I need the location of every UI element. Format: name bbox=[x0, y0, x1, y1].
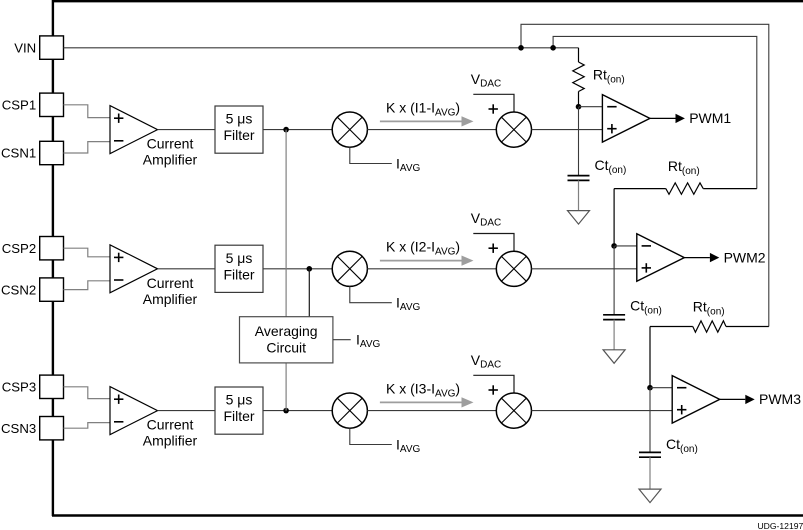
wire row2 node to averaging circuit bbox=[308, 269, 310, 317]
capacitor Ct(on) 1 bbox=[568, 176, 590, 181]
wire ramp node to comparator 3 - input bbox=[650, 387, 672, 389]
svg-text:CSP3: CSP3 bbox=[2, 380, 36, 395]
svg-text:VIN: VIN bbox=[14, 40, 36, 55]
svg-text:5 μs: 5 μs bbox=[226, 392, 253, 408]
wire CSN3 to amplifier - input bbox=[64, 423, 111, 429]
wire CSN2 to amplifier - input bbox=[64, 281, 111, 290]
wire ramp node 2 down to capacitor bbox=[613, 246, 615, 315]
pin VIN bbox=[14, 36, 63, 59]
svg-text:Filter: Filter bbox=[223, 266, 254, 282]
node junction dot row 2 bbox=[307, 266, 313, 272]
wire averaging circuit to row3 node bbox=[285, 363, 287, 411]
wire top rail 2 (to PWM2 Rt) bbox=[553, 36, 757, 188]
node junction dot row 1 bbox=[283, 127, 289, 133]
wire ramp node 3 down to capacitor bbox=[649, 388, 651, 453]
svg-text:PWM2: PWM2 bbox=[724, 249, 766, 265]
plus sign at multiplier 2B input bbox=[489, 244, 498, 253]
signal arrow K x (I1-IAVG) bbox=[380, 116, 474, 126]
wire capacitor 2 to ground bbox=[613, 320, 615, 350]
pin CSN3 bbox=[1, 417, 63, 440]
multiplier (subtractor) 1A bbox=[332, 112, 367, 147]
wire row1 node to averaging circuit bbox=[285, 130, 287, 317]
wire multiplier 3B to comparator + input bbox=[532, 410, 673, 412]
node junction dot ramp 2 bbox=[611, 243, 617, 249]
wire CSP2 to amplifier + input bbox=[64, 248, 111, 257]
svg-text:PWM3: PWM3 bbox=[759, 391, 801, 407]
svg-text:Current: Current bbox=[147, 136, 194, 152]
pin CSP1 bbox=[2, 93, 64, 116]
resistor Rt(on) 2 (horizontal, feeds ramp 2) bbox=[614, 183, 757, 246]
wire multiplier 1B to comparator + input bbox=[532, 129, 603, 131]
wire multiplier 2A IAVG input bbox=[350, 286, 392, 302]
wire top rail 1 (to PWM3 Rt) bbox=[521, 24, 769, 326]
svg-text:Amplifier: Amplifier bbox=[143, 291, 198, 307]
wire VDAC to multiplier 1B bbox=[473, 94, 514, 112]
wire multiplier 2A to multiplier 2B bbox=[367, 268, 496, 270]
svg-text:PWM1: PWM1 bbox=[689, 110, 731, 126]
wire filter 2 to multiplier bbox=[263, 268, 332, 270]
wire amplifier 1 output to filter bbox=[158, 129, 216, 131]
svg-text:Averaging: Averaging bbox=[255, 323, 318, 339]
svg-text:CSN3: CSN3 bbox=[1, 421, 36, 436]
block averaging circuit bbox=[240, 317, 333, 363]
pin CSP2 bbox=[2, 237, 64, 260]
wire multiplier 3A IAVG input bbox=[350, 428, 392, 444]
svg-text:UDG-12197: UDG-12197 bbox=[757, 521, 803, 530]
multiplier (subtractor) 2A bbox=[332, 251, 367, 286]
wire CSP3 to amplifier + input bbox=[64, 387, 111, 399]
output arrowhead PWM2 bbox=[710, 253, 719, 262]
wire filter 3 to multiplier bbox=[263, 410, 332, 412]
wire CSN1 to amplifier - input bbox=[64, 142, 111, 153]
signal arrow K x (I2-IAVG) bbox=[380, 256, 474, 266]
wire multiplier 1A IAVG input bbox=[350, 147, 392, 163]
wire averaging circuit IAVG output bbox=[333, 339, 351, 341]
wire comparator 1 output bbox=[650, 117, 676, 119]
output arrowhead PWM1 bbox=[676, 114, 685, 123]
resistor Rt(on) 1 (vertical from VIN rail) bbox=[573, 48, 584, 107]
ground symbol 2 bbox=[603, 350, 625, 364]
wire VDAC to multiplier 3B bbox=[473, 375, 514, 393]
node junction dot row 3 bbox=[283, 408, 289, 414]
wire VIN rail bbox=[64, 47, 579, 49]
wire amplifier 3 output to filter bbox=[158, 410, 216, 412]
ground symbol 1 bbox=[568, 211, 590, 225]
wire capacitor 1 to ground bbox=[578, 180, 580, 210]
pin CSN2 bbox=[1, 278, 63, 301]
multiplier (summer) 1B bbox=[496, 112, 531, 147]
wire amplifier 2 output to filter bbox=[158, 268, 216, 270]
wire CSP1 to amplifier + input bbox=[64, 105, 111, 118]
block 5 us filter 2 bbox=[215, 245, 263, 292]
svg-text:CSP2: CSP2 bbox=[2, 241, 36, 256]
svg-text:5 μs: 5 μs bbox=[226, 111, 253, 127]
signal arrow K x (I3-IAVG) bbox=[380, 397, 474, 407]
pin CSN1 bbox=[1, 141, 63, 164]
ground symbol 3 bbox=[639, 489, 661, 503]
pin CSP3 bbox=[2, 375, 64, 398]
svg-text:Amplifier: Amplifier bbox=[143, 433, 198, 449]
svg-text:Current: Current bbox=[147, 417, 194, 433]
multiplier (summer) 3B bbox=[496, 393, 531, 428]
node junction dot rail 1 bbox=[518, 45, 524, 51]
plus sign at multiplier 1B input bbox=[489, 104, 498, 113]
wire ramp node to comparator 2 - input bbox=[614, 245, 637, 247]
comparator 1 bbox=[602, 95, 650, 143]
multiplier (subtractor) 3A bbox=[332, 393, 367, 428]
block 5 us filter 3 bbox=[215, 387, 263, 434]
wire comparator 2 output bbox=[684, 257, 710, 259]
capacitor Ct(on) 3 bbox=[639, 452, 661, 457]
svg-text:CSN1: CSN1 bbox=[1, 146, 36, 161]
svg-text:CSP1: CSP1 bbox=[2, 98, 36, 113]
node junction dot ramp 3 bbox=[647, 385, 653, 391]
node junction dot rail 2 bbox=[550, 45, 556, 51]
comparator 2 bbox=[637, 234, 685, 281]
wire comparator 3 output bbox=[720, 398, 746, 400]
plus sign at multiplier 3B input bbox=[489, 385, 498, 394]
block 5 us filter 1 bbox=[215, 106, 263, 153]
wire multiplier 2B to comparator + input bbox=[532, 268, 637, 270]
wire multiplier 1A to multiplier 1B bbox=[367, 129, 496, 131]
op-amp current amplifier 1 bbox=[110, 106, 158, 154]
svg-text:Circuit: Circuit bbox=[266, 340, 306, 356]
op-amp current amplifier 3 bbox=[110, 387, 158, 435]
wire multiplier 3A to multiplier 3B bbox=[367, 410, 496, 412]
svg-text:Amplifier: Amplifier bbox=[143, 152, 198, 168]
capacitor Ct(on) 2 bbox=[603, 315, 625, 320]
resistor Rt(on) 3 (horizontal, feeds ramp 3) bbox=[650, 321, 769, 388]
svg-text:CSN2: CSN2 bbox=[1, 282, 36, 297]
wire filter 1 to multiplier bbox=[263, 129, 332, 131]
output arrowhead PWM3 bbox=[745, 395, 754, 404]
wire VDAC to multiplier 2B bbox=[473, 234, 514, 252]
wire ramp node 1 down to capacitor bbox=[578, 107, 580, 176]
svg-text:Current: Current bbox=[147, 275, 194, 291]
svg-text:Filter: Filter bbox=[223, 127, 254, 143]
multiplier (summer) 2B bbox=[496, 251, 531, 286]
wire capacitor 3 to ground bbox=[649, 457, 651, 489]
svg-text:5 μs: 5 μs bbox=[226, 250, 253, 266]
svg-text:Filter: Filter bbox=[223, 408, 254, 424]
op-amp current amplifier 2 bbox=[110, 245, 158, 293]
comparator 3 bbox=[672, 376, 720, 424]
node junction dot ramp 1 bbox=[576, 104, 582, 110]
wire ramp node to comparator 1 - input bbox=[579, 106, 603, 108]
